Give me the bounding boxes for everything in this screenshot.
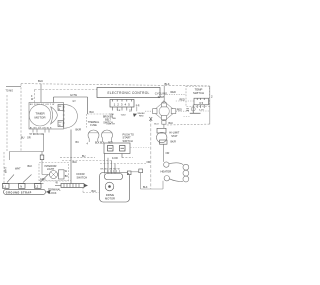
door switch arrow xyxy=(84,184,88,187)
wire fuse stub x86.5 xyxy=(86,114,88,128)
svg-text:OR: OR xyxy=(166,152,170,155)
drive motor circles xyxy=(105,182,114,191)
node D ticks xyxy=(63,107,65,123)
wire P2S to motor drops xyxy=(105,154,123,174)
svg-text:6 5: 6 5 xyxy=(199,101,203,105)
terminal N xyxy=(19,184,26,189)
terminal L1 xyxy=(3,184,10,189)
svg-text:SWITCH: SWITCH xyxy=(193,91,204,95)
svg-text:BK BU OR RD W: BK BU OR RD W xyxy=(101,168,120,170)
wire drop x112.5 xyxy=(112,114,114,120)
svg-text:SWITCH: SWITCH xyxy=(77,176,88,180)
wire EC dashed y89.5 xyxy=(35,89,98,91)
svg-text:BLK: BLK xyxy=(38,79,43,83)
svg-text:BLK: BLK xyxy=(95,142,100,145)
node terminal block arrow xyxy=(46,190,51,194)
wire heater relay drop x150.5 xyxy=(150,119,152,189)
wire light feed lower xyxy=(42,160,50,175)
push to start switch S1 box xyxy=(104,143,130,154)
wire cycling right dotted xyxy=(176,110,190,112)
wire diagonal N xyxy=(23,175,32,183)
cycling stat circle xyxy=(159,106,169,116)
svg-text:HI-LIMIT: HI-LIMIT xyxy=(169,131,180,135)
wire timer top stub x53.5 xyxy=(53,97,55,103)
svg-text:BLK: BLK xyxy=(73,161,78,164)
cycling stat diamond xyxy=(153,102,176,122)
svg-text:GY/W: GY/W xyxy=(70,93,77,97)
svg-text:WHT: WHT xyxy=(15,168,21,171)
svg-text:TO MO: TO MO xyxy=(6,90,14,92)
wire heater return riser xyxy=(140,173,142,190)
temp relay K1 xyxy=(192,105,194,113)
wire motor to junction xyxy=(131,171,139,173)
svg-text:BLK: BLK xyxy=(165,82,170,86)
node temp switch stubs xyxy=(197,105,204,108)
svg-text:BK: BK xyxy=(59,106,62,108)
wire heater bottom run xyxy=(141,188,164,190)
svg-text:W: W xyxy=(65,171,68,173)
lamp L1 xyxy=(50,171,58,179)
electronic control U1 box xyxy=(97,88,160,98)
wire horizontal y151.5 xyxy=(10,151,44,153)
svg-text:9-R: 9-R xyxy=(136,105,140,107)
svg-text:N: N xyxy=(20,185,22,189)
wire EC dashed corner xyxy=(34,90,36,103)
svg-text:MOTOR: MOTOR xyxy=(34,116,46,120)
svg-text:SWITCH: SWITCH xyxy=(103,122,113,125)
wire dashed y157.7 xyxy=(60,157,133,159)
drive motor connector notch xyxy=(105,174,123,180)
junction box J2 xyxy=(139,169,143,173)
drive motor M2 box xyxy=(100,173,130,203)
wire timer to belt y97 xyxy=(54,96,88,98)
svg-text:RED: RED xyxy=(180,99,185,102)
terminal block TB1 rail xyxy=(3,183,44,185)
wire RED to temp switch xyxy=(164,93,186,95)
svg-text:BK: BK xyxy=(65,176,69,178)
svg-text:FUSE: FUSE xyxy=(90,124,97,127)
svg-text:9-OR: 9-OR xyxy=(112,157,118,160)
svg-text:RED: RED xyxy=(139,116,144,118)
timer box T1 xyxy=(29,103,64,130)
svg-text:BLK: BLK xyxy=(90,111,95,114)
timer cam crescent xyxy=(51,107,58,125)
node connector pin ticks xyxy=(112,100,131,102)
lamp socket xyxy=(59,170,65,179)
wire heater bottom xyxy=(162,181,164,189)
wire hi-limit to heater xyxy=(163,144,165,162)
heater R1 xyxy=(164,162,169,167)
wire door to motor dashed xyxy=(83,188,100,193)
wire relay to right edge xyxy=(201,110,210,112)
terminal L2 xyxy=(35,184,42,189)
svg-text:5Y 9R BU OR: 5Y 9R BU OR xyxy=(30,134,45,136)
cycling stat pads xyxy=(161,103,166,107)
svg-text:GROUND STRAP: GROUND STRAP xyxy=(6,192,32,195)
svg-text:GY: GY xyxy=(73,101,77,103)
svg-text:ELECTRONIC CONTROL: ELECTRONIC CONTROL xyxy=(107,91,149,95)
svg-text:BLK: BLK xyxy=(92,190,97,193)
wire dashed y160.5 xyxy=(62,160,112,162)
timer contact box lower xyxy=(58,121,63,127)
wire left vertical dashed upper xyxy=(20,84,22,152)
door switch S6 bar xyxy=(61,184,84,188)
svg-text:4: 4 xyxy=(87,143,89,146)
svg-text:BLK: BLK xyxy=(143,186,148,189)
wire timer feed x41 xyxy=(40,84,42,103)
svg-text:RED: RED xyxy=(171,91,176,94)
wire diagonal L1 xyxy=(7,175,14,183)
wire right edge vertical xyxy=(209,86,211,124)
junction box J3 motor edge xyxy=(127,171,131,175)
svg-text:HEATER: HEATER xyxy=(161,170,172,174)
svg-text:Y-R: Y-R xyxy=(117,110,121,112)
hi-limit stat S5 xyxy=(157,128,166,133)
wire RED dotted to terminal box xyxy=(176,100,194,102)
interior light dashed box xyxy=(39,163,69,182)
svg-text:SWITCH: SWITCH xyxy=(123,139,133,143)
svg-text:BU: BU xyxy=(21,137,25,140)
node contact a xyxy=(108,146,114,152)
wire light feed xyxy=(41,152,43,156)
svg-text:RED: RED xyxy=(177,108,182,111)
svg-text:BLK: BLK xyxy=(28,165,33,168)
wire door switch drop xyxy=(70,130,72,184)
svg-text:DOOR: DOOR xyxy=(77,172,85,176)
svg-text:BLU: BLU xyxy=(154,124,159,126)
temp switch S4 dashed box xyxy=(186,86,210,106)
wire pin5 to cycling left pad xyxy=(145,110,153,112)
wire relay lower dashes xyxy=(184,116,191,118)
wire top-left stub xyxy=(6,86,21,88)
wire dashed y163.5 xyxy=(100,163,146,165)
svg-text:2: 2 xyxy=(211,94,213,98)
wire BLK top bus xyxy=(21,84,210,86)
svg-text:T-BU: T-BU xyxy=(121,115,126,117)
timer contact box upper xyxy=(58,105,63,111)
wire drop x87.5 xyxy=(87,97,89,114)
svg-text:BU: BU xyxy=(113,118,116,120)
junction box J4 xyxy=(40,155,44,160)
wire timer drop x43.5 xyxy=(43,134,45,152)
temp switch terminal box xyxy=(194,98,209,105)
ground strap capsule xyxy=(4,189,46,194)
wire cycling top riser xyxy=(163,85,165,100)
svg-text:BK/R: BK/R xyxy=(76,129,82,132)
svg-text:STAT: STAT xyxy=(171,134,178,138)
svg-text:MOTOR: MOTOR xyxy=(105,196,115,200)
node contact b xyxy=(120,146,126,152)
node timer lower stubs xyxy=(33,129,49,133)
svg-text:WH/BK: WH/BK xyxy=(138,113,146,115)
svg-text:BLOCK: BLOCK xyxy=(48,192,57,195)
svg-text:GY: GY xyxy=(59,122,63,124)
wire diagonal L2 xyxy=(40,175,48,183)
svg-text:STAT: STAT xyxy=(158,95,165,99)
svg-text:BU: BU xyxy=(76,141,80,144)
svg-text:OR: OR xyxy=(27,137,31,140)
svg-text:W: W xyxy=(56,182,59,185)
wire fuse bus y114 xyxy=(88,113,113,115)
svg-text:BK/R: BK/R xyxy=(171,142,177,144)
svg-text:WHT: WHT xyxy=(4,167,8,173)
wire door bar left stub xyxy=(55,185,61,187)
wire P2S to relay dotted xyxy=(131,147,151,149)
svg-text:DRIVE: DRIVE xyxy=(106,193,114,197)
wire left vertical dashed outer xyxy=(4,95,7,184)
wire GRN dashed xyxy=(39,180,71,182)
wire right edge return xyxy=(167,123,210,126)
node pin stubs below xyxy=(112,107,131,111)
svg-text:W: W xyxy=(31,98,34,101)
node X mark xyxy=(149,117,152,121)
timer motor M1 circle xyxy=(29,104,51,126)
timer cam D profile xyxy=(64,104,78,128)
node relay arrow xyxy=(133,114,137,118)
thermal fuse F1 xyxy=(88,130,99,139)
svg-text:1 2 3 4 5: 1 2 3 4 5 xyxy=(114,103,131,107)
svg-text:BLK: BLK xyxy=(169,122,174,125)
wire cycling bottom drop xyxy=(163,124,165,128)
wire L1 riser xyxy=(9,152,11,161)
svg-text:OR: OR xyxy=(147,161,151,164)
svg-text:BU: BU xyxy=(82,155,86,158)
connector J1 box xyxy=(110,100,134,108)
broken belt switch S3 xyxy=(102,130,113,139)
